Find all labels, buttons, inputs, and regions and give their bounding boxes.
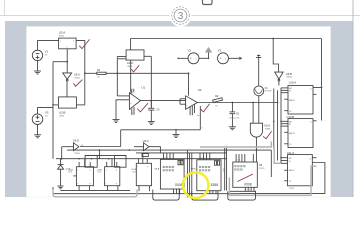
- wire into U4 inputs: [180, 99, 186, 104]
- svg-text:+: +: [220, 57, 222, 61]
- node dot U2:A out to R1: [84, 72, 86, 74]
- counter U10:B: [281, 115, 317, 147]
- svg-text:MA/CX: MA/CX: [289, 132, 295, 135]
- svg-text:U10:A: U10:A: [289, 81, 297, 85]
- IC U6: [233, 154, 265, 191]
- svg-text:MA/CX: MA/CX: [289, 169, 295, 172]
- red check near U2:C: [131, 65, 139, 72]
- red check near U4: [201, 104, 210, 112]
- svg-text:7474: 7474: [68, 172, 72, 174]
- inverter U3:C: [134, 139, 160, 153]
- svg-text:VPULSE: VPULSE: [265, 91, 273, 93]
- svg-text:2 2 2 2: 2 2 2 2: [199, 158, 204, 160]
- ground mid: [173, 129, 180, 138]
- svg-text:U3:A: U3:A: [74, 73, 80, 77]
- svg-text:0008: 0008: [175, 183, 183, 187]
- diode D1: [229, 103, 240, 127]
- wire loop under U6: [228, 191, 256, 200]
- svg-text:): ): [225, 57, 226, 61]
- red check near U5:A: [263, 131, 272, 139]
- wire mid horizontal: [80, 106, 204, 159]
- bus wire B: [136, 152, 227, 154]
- svg-text:U5:A: U5:A: [264, 124, 270, 128]
- wire V1 to U2:A: [38, 41, 59, 51]
- svg-text:V1: V1: [45, 50, 49, 54]
- inverter U3:B: [275, 72, 292, 86]
- node dot R1 rail: [116, 72, 118, 74]
- svg-text:7474: 7474: [97, 172, 101, 174]
- voltage source V3: [218, 49, 240, 64]
- svg-text:74S04: 74S04: [286, 77, 291, 79]
- NAND gate U2:A: [59, 31, 77, 49]
- svg-text:3: 3: [73, 41, 74, 43]
- voltage source V5: [32, 111, 49, 125]
- counter U11:A: [281, 151, 317, 190]
- op-amp U1: [129, 86, 145, 115]
- bottom wire row2: [230, 190, 256, 192]
- svg-text:V5: V5: [45, 111, 49, 115]
- svg-text:MA/CX: MA/CX: [289, 99, 295, 102]
- svg-text:W: W: [289, 124, 291, 126]
- svg-text:74: 74: [223, 171, 225, 173]
- power arrow symbol: [205, 47, 211, 59]
- AND gate U5:A: [250, 103, 270, 162]
- svg-text:74C925: 74C925: [259, 168, 265, 170]
- svg-text:0008: 0008: [244, 183, 251, 187]
- top horizontal supply wire: [131, 39, 322, 50]
- svg-text:1 2 1: 1 2 1: [173, 191, 177, 193]
- top-right clipped square icon: [203, 0, 213, 5]
- svg-text:q: q: [116, 183, 117, 185]
- svg-text:1 1 1 1: 1 1 1 1: [235, 160, 240, 162]
- svg-text:7474: 7474: [132, 172, 136, 174]
- arrowhead connector: [239, 57, 242, 60]
- voltage source V1: [32, 50, 48, 61]
- ground under D1: [229, 127, 236, 130]
- diode D2: [58, 159, 71, 186]
- wire U1 plus input: [116, 100, 129, 120]
- svg-text:s: s: [106, 169, 107, 171]
- gray net loop under flip-flops: [53, 190, 137, 197]
- bus wire C: [85, 154, 126, 156]
- svg-text:74S08: 74S08: [265, 128, 270, 130]
- svg-text:q: q: [90, 183, 91, 185]
- wire U2:A pin to inverter: [53, 49, 68, 73]
- small rect block left: [85, 155, 97, 167]
- flip-flop U1:B: [97, 159, 120, 191]
- svg-text:U1: U1: [141, 86, 145, 90]
- svg-text:V2: V2: [188, 49, 192, 53]
- svg-text:q: q: [116, 169, 117, 171]
- viewer gray background band: [5, 21, 353, 197]
- wire U2:A output: [76, 41, 85, 105]
- gray net wire A: [200, 142, 271, 148]
- svg-text:U7: U7: [223, 169, 225, 171]
- red check near U3:A: [73, 80, 82, 87]
- svg-text:V3: V3: [218, 49, 222, 53]
- svg-text:3: 3: [178, 11, 184, 22]
- gray net wire B: [274, 147, 281, 163]
- pulse source V1: [254, 86, 273, 96]
- left rail wire: [52, 62, 54, 159]
- counter U8:A: [155, 153, 184, 194]
- svg-text:74S04: 74S04: [74, 78, 79, 80]
- wire rail to U2:C inputs: [117, 57, 126, 96]
- wire V5 top: [38, 108, 54, 114]
- NAND gate U2:B: [52, 97, 85, 118]
- inverter U3:D: [61, 139, 83, 160]
- svg-text:s: s: [137, 166, 138, 168]
- svg-text:U6: U6: [259, 163, 263, 167]
- node dots on output wire: [232, 102, 255, 104]
- bus wire A: [67, 149, 271, 151]
- red check inside U6: [238, 174, 254, 182]
- inverter U3:A: [63, 73, 80, 81]
- wire U2:C output down: [144, 56, 152, 108]
- wire U4 output: [197, 102, 278, 104]
- wire VPULSE down: [258, 96, 260, 103]
- capacitor C9: [148, 101, 160, 122]
- svg-text:1 2 1: 1 2 1: [209, 192, 213, 194]
- svg-text:+: +: [190, 57, 192, 61]
- small part L2 on bus: [142, 154, 148, 157]
- bus wire D: [56, 158, 227, 160]
- flip-flop U9:B: [132, 153, 152, 191]
- svg-text:5F20: 5F20: [290, 188, 294, 190]
- gray net loop bottom: [229, 166, 316, 195]
- wire U2:C to U1 top: [130, 60, 132, 93]
- resistor R1: [85, 69, 106, 78]
- svg-text:W: W: [289, 161, 291, 163]
- svg-text:6 7 8 9: 6 7 8 9: [245, 190, 250, 192]
- svg-text:q: q: [90, 169, 91, 171]
- svg-text:U8:A: U8:A: [155, 167, 160, 170]
- page number badge circle 3: [169, 4, 191, 26]
- svg-text:): ): [196, 57, 197, 61]
- ground under C9: [148, 122, 155, 125]
- svg-text:q: q: [147, 166, 148, 168]
- right UI border line: [352, 0, 354, 197]
- ground under diode: [58, 186, 64, 189]
- wire U1 output: [141, 100, 186, 102]
- red check near U1: [137, 103, 148, 112]
- small rect block right: [115, 155, 127, 167]
- wire R1 to U4 top: [106, 72, 188, 74]
- wire cross to VPULSE: [258, 60, 260, 86]
- svg-text:U3:D: U3:D: [73, 139, 79, 143]
- node dot top rail: [272, 38, 274, 40]
- svg-text:74S04: 74S04: [74, 153, 79, 155]
- ground under V1: [34, 61, 41, 74]
- svg-text:7m: 7m: [197, 115, 200, 117]
- wire U11:A output loop: [240, 163, 325, 194]
- yellow highlight ellipse: [183, 172, 209, 198]
- left UI border line: [4, 0, 6, 16]
- op-amp U4: [186, 72, 202, 117]
- bottom wire row1: [61, 189, 131, 191]
- svg-text:U3:B: U3:B: [286, 72, 292, 76]
- wire loop under counter U8:B: [192, 191, 218, 200]
- svg-text:U2:C: U2:C: [127, 61, 134, 65]
- svg-text:1k: 1k: [215, 105, 217, 107]
- svg-text:5: 5: [132, 113, 133, 115]
- counter U10:A: [281, 81, 322, 114]
- resistor R2: [213, 95, 223, 107]
- svg-text:U2:A: U2:A: [59, 31, 65, 35]
- NAND gate U2:C: [126, 50, 144, 68]
- svg-text:5355: 5355: [211, 183, 219, 187]
- svg-text:c: c: [106, 183, 107, 185]
- right vertical supply wire: [321, 39, 323, 121]
- right pin rails: [273, 88, 282, 163]
- wires U7 vertical pair: [223, 148, 227, 191]
- counter U8:B: [191, 153, 221, 194]
- svg-text:U4: U4: [198, 88, 202, 92]
- wire U1 minus input: [117, 95, 129, 97]
- flip-flop U1:A: [68, 159, 93, 191]
- white schematic sheet: [27, 27, 331, 198]
- wire loop under counter U8:A: [153, 190, 179, 201]
- svg-text:W: W: [289, 91, 291, 93]
- ground under U1 input: [113, 120, 120, 123]
- pin number marks: [163, 158, 250, 194]
- wire bus A drop right: [270, 150, 272, 177]
- wires between counters: [187, 150, 191, 197]
- voltage source V2: [177, 49, 208, 64]
- svg-text:U2:B: U2:B: [59, 110, 65, 114]
- wire U3:A to U2:B: [66, 81, 68, 97]
- power cross symbol: [256, 55, 261, 61]
- red check near U2:A: [79, 39, 89, 48]
- ground under V5: [34, 125, 41, 138]
- svg-text:2 2 2 2: 2 2 2 2: [163, 158, 168, 160]
- top UI divider line: [0, 15, 360, 17]
- svg-text:1: 1: [60, 41, 61, 43]
- svg-text:1N4001-004: 1N4001-004: [229, 117, 239, 119]
- bottom wire row3: [53, 187, 240, 194]
- svg-text:14: 14: [81, 145, 83, 147]
- wire top rail to U3:B: [273, 39, 278, 73]
